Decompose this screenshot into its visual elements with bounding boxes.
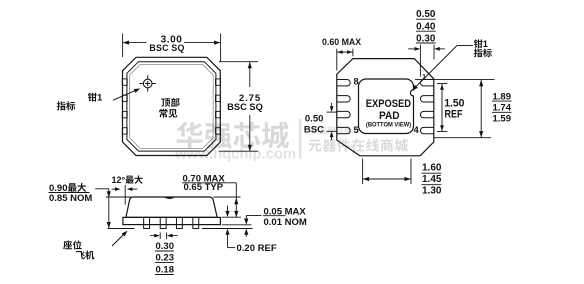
svg-text:EXPOSED: EXPOSED [366, 98, 411, 110]
svg-text:PAD: PAD [379, 110, 400, 122]
svg-text:REF: REF [445, 108, 463, 120]
svg-text:BSC: BSC [304, 124, 324, 135]
svg-text:0.50: 0.50 [305, 114, 324, 125]
svg-text:0.50: 0.50 [416, 9, 436, 20]
svg-text:5: 5 [354, 125, 359, 135]
svg-text:0.18: 0.18 [156, 265, 175, 276]
svg-text:12°: 12° [112, 175, 126, 185]
svg-text:0.85 NOM: 0.85 NOM [49, 193, 92, 204]
svg-text:0.01 NOM: 0.01 NOM [264, 217, 307, 228]
svg-text:(BOTTOM VIEW): (BOTTOM VIEW) [366, 121, 411, 128]
svg-text:0.23: 0.23 [156, 253, 175, 264]
svg-text:1.45: 1.45 [422, 174, 442, 185]
svg-text:1.60: 1.60 [422, 163, 442, 174]
svg-text:1: 1 [483, 39, 488, 49]
svg-text:1.30: 1.30 [422, 186, 442, 197]
svg-text:0.20 REF: 0.20 REF [237, 243, 277, 254]
svg-text:1.59: 1.59 [493, 114, 512, 125]
svg-text:4: 4 [414, 125, 420, 135]
svg-text:0.60 MAX: 0.60 MAX [322, 37, 361, 47]
svg-text:1: 1 [97, 93, 103, 104]
svg-text:0.65 TYP: 0.65 TYP [184, 182, 224, 193]
svg-text:1.74: 1.74 [493, 103, 512, 114]
svg-text:BSC SQ: BSC SQ [227, 102, 263, 112]
svg-text:BSC SQ: BSC SQ [149, 43, 184, 53]
svg-text:8: 8 [354, 76, 359, 86]
